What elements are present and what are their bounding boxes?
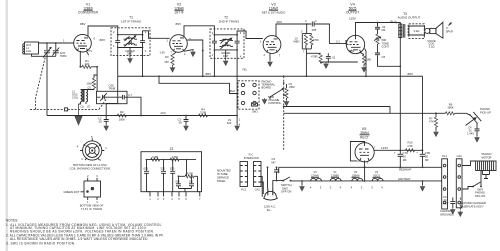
capacitor C2 .05 bbox=[98, 115, 109, 125]
svg-text:2.7: 2.7 bbox=[128, 93, 132, 97]
svg-text:CONVERTER: CONVERTER bbox=[78, 10, 99, 14]
heater V1 bbox=[330, 170, 342, 190]
svg-text:220: 220 bbox=[161, 166, 166, 170]
volume control R5 500K bbox=[268, 84, 288, 105]
T3 core bbox=[403, 24, 405, 38]
switch SW3 phono bbox=[462, 171, 485, 198]
svg-text:GRY/WHT: GRY/WHT bbox=[398, 177, 411, 181]
svg-text:.047: .047 bbox=[271, 160, 277, 164]
svg-text:.05: .05 bbox=[98, 120, 102, 124]
phono motor bbox=[476, 152, 496, 179]
chassis ground main (large) bbox=[78, 104, 80, 116]
heater V2 bbox=[351, 170, 363, 190]
svg-text:-7V: -7V bbox=[88, 49, 92, 53]
scan edge shading bbox=[6, 0, 9, 251]
svg-text:CA1: CA1 bbox=[457, 154, 463, 158]
svg-text:180: 180 bbox=[367, 58, 372, 62]
svg-text:.005: .005 bbox=[311, 28, 317, 32]
ground C6 bbox=[451, 208, 456, 214]
svg-text:BASEPLATE ASS'Y: BASEPLATE ASS'Y bbox=[460, 204, 484, 208]
svg-text:YEL: YEL bbox=[242, 68, 248, 72]
svg-text:220: 220 bbox=[227, 121, 232, 125]
switch SW2 bbox=[281, 177, 292, 194]
connector CA1 bbox=[456, 154, 462, 208]
svg-text:SW1: SW1 bbox=[252, 110, 258, 114]
svg-text:CONTROL: CONTROL bbox=[268, 101, 282, 105]
resistor R10 1.5K bbox=[406, 141, 415, 152]
ground C4 bbox=[475, 136, 480, 142]
phono line lower bbox=[284, 107, 436, 114]
svg-text:TRIM: TRIM bbox=[60, 54, 67, 58]
antenna L1 loopstick bbox=[23, 42, 39, 54]
tube V4 50C5 output bbox=[346, 3, 365, 58]
svg-text:PHONO: PHONO bbox=[482, 152, 492, 156]
T2 slug arrows bbox=[221, 38, 232, 49]
node T2 corners bbox=[214, 34, 216, 36]
tube V1 12BE6 converter bbox=[63, 3, 99, 58]
bottom view of T1 T2 IF trans bbox=[64, 174, 104, 211]
svg-text:DET & 1ST AUDIO: DET & 1ST AUDIO bbox=[262, 10, 286, 14]
svg-text:.005: .005 bbox=[143, 166, 149, 170]
trimmer C1B ANT TRIM bbox=[52, 43, 67, 58]
T1 slug arrows bbox=[125, 36, 136, 47]
svg-text:50: 50 bbox=[425, 155, 428, 159]
resistor 100K osc grid bbox=[87, 75, 98, 90]
wire T3 primary bottom long B+ drop bbox=[399, 38, 401, 151]
node primary bottom bbox=[399, 65, 401, 67]
ground V2 bbox=[191, 51, 196, 57]
wire V1 cathode stub bbox=[87, 52, 89, 55]
wire V1 plate to T1 pin2 bbox=[88, 26, 118, 36]
svg-text:T1,T2 I.F. TRANS: T1,T2 I.F. TRANS bbox=[81, 207, 102, 211]
T2 internal top wire bbox=[214, 34, 237, 36]
bottom view of L2 osc coil bbox=[70, 135, 111, 171]
svg-text:1ST IF TRANS: 1ST IF TRANS bbox=[121, 20, 141, 24]
ground V4 cathode bbox=[362, 66, 367, 72]
resistor R4 3.3M bbox=[199, 108, 208, 118]
wire plug left prong to B- bus bbox=[267, 167, 269, 188]
T1 internal ground bbox=[129, 48, 131, 58]
SW1 dashed gang line bbox=[283, 76, 285, 150]
resistor 10MEG V3 load bbox=[294, 24, 312, 54]
tone control pot 50K bbox=[374, 34, 389, 53]
V3 cathode ground stub bbox=[269, 53, 271, 60]
node coupling junction bbox=[306, 23, 308, 25]
svg-text:OFF-ON: OFF-ON bbox=[281, 190, 291, 194]
capacitor .02 lower bbox=[326, 53, 336, 62]
T1 internal bottom wire bbox=[118, 47, 143, 49]
svg-text:88V: 88V bbox=[100, 38, 106, 42]
capacitor C9 .047 bbox=[271, 157, 280, 182]
node filter junctions bbox=[399, 149, 401, 151]
svg-text:60~: 60~ bbox=[267, 208, 272, 212]
wire lower bottom rail bbox=[321, 53, 358, 63]
record changer dashed bracket bbox=[459, 198, 461, 211]
svg-text:CONT: CONT bbox=[382, 45, 390, 49]
voice coil connection bbox=[413, 26, 425, 35]
svg-text:(2): (2) bbox=[88, 86, 91, 90]
node plate wire / tone branch bbox=[377, 22, 379, 24]
wire T1 pin4 to B+ bus bbox=[142, 48, 144, 77]
wire antenna bottom return bbox=[32, 54, 56, 56]
svg-text:PICK-UP: PICK-UP bbox=[480, 110, 491, 114]
T1 tuning cap right bbox=[140, 35, 145, 48]
couplate Z1 box bbox=[141, 147, 202, 192]
wire screen feed branch BLU bbox=[159, 76, 238, 93]
svg-text:86V: 86V bbox=[176, 22, 182, 26]
ground heater bus bbox=[301, 181, 303, 185]
capacitor C3 .05 bbox=[178, 115, 189, 125]
svg-text:BOARD: BOARD bbox=[262, 86, 272, 90]
svg-text:1ST IF: 1ST IF bbox=[174, 10, 184, 14]
svg-text:MOUNTED: MOUNTED bbox=[217, 169, 231, 173]
svg-text:470K: 470K bbox=[313, 38, 319, 42]
T2 internal bottom wire bbox=[214, 49, 237, 51]
svg-text:3. SW1 IS SHOWN IN RADIO POSIT: 3. SW1 IS SHOWN IN RADIO POSITION. bbox=[6, 241, 76, 245]
heater bus bbox=[290, 180, 441, 182]
Z1 capacitor 150 bbox=[170, 159, 175, 192]
notes block bbox=[6, 219, 164, 246]
svg-text:COIL SHOWING CONNECTIONS: COIL SHOWING CONNECTIONS bbox=[70, 167, 111, 171]
svg-text:GREEN DOT: GREEN DOT bbox=[64, 190, 80, 194]
svg-text:BLU: BLU bbox=[391, 20, 396, 24]
V2 grid2 ground stub bbox=[184, 50, 193, 52]
filter capacitor C7B 50MF bbox=[416, 150, 430, 168]
wire plug right prong to switch bbox=[273, 181, 283, 189]
phono pickup bbox=[455, 107, 492, 126]
svg-text:150: 150 bbox=[164, 60, 169, 64]
svg-text:88V: 88V bbox=[80, 22, 86, 26]
node: C1B top junction bbox=[55, 42, 57, 44]
svg-text:22K: 22K bbox=[85, 62, 90, 66]
svg-text:AUDIO OUTPUT: AUDIO OUTPUT bbox=[398, 16, 421, 20]
connector CA2 bbox=[254, 162, 262, 192]
wire V2 screen to B+ bus bbox=[187, 40, 203, 76]
svg-text:V3: V3 bbox=[313, 170, 317, 174]
svg-text:3.3M: 3.3M bbox=[200, 111, 207, 115]
svg-text:MF: MF bbox=[425, 158, 429, 162]
svg-text:COIL: COIL bbox=[72, 96, 79, 100]
wire V4 screen to B+ bus bbox=[365, 49, 367, 77]
svg-text:Z1: Z1 bbox=[170, 147, 174, 151]
svg-text:.05: .05 bbox=[178, 121, 182, 125]
svg-text:88V: 88V bbox=[408, 72, 414, 76]
svg-text:(7): (7) bbox=[87, 104, 90, 108]
tuning capacitor C1A bbox=[43, 43, 51, 116]
svg-text:MEG: MEG bbox=[294, 40, 300, 44]
V4 cathode resistor 180 bbox=[360, 52, 372, 66]
oscillator trimmer box bbox=[97, 91, 128, 103]
ground volume right bbox=[284, 100, 289, 106]
svg-text:CA2: CA2 bbox=[255, 188, 261, 192]
wire V4 plate to T3 primary bbox=[356, 23, 401, 36]
T1 coils bbox=[124, 38, 138, 45]
svg-text:RECT: RECT bbox=[360, 136, 369, 140]
svg-text:121V: 121V bbox=[381, 146, 389, 150]
svg-text:C7A: C7A bbox=[403, 151, 408, 155]
svg-text:IN TUBE: IN TUBE bbox=[217, 172, 228, 176]
svg-text:88V: 88V bbox=[206, 72, 212, 76]
ground R7 bbox=[434, 131, 439, 137]
svg-text:.02: .02 bbox=[332, 56, 336, 60]
svg-text:1.4KV: 1.4KV bbox=[467, 132, 475, 136]
svg-text:3.2Ω: 3.2Ω bbox=[414, 29, 420, 33]
svg-text:R2: R2 bbox=[120, 110, 124, 114]
svg-text:V1: V1 bbox=[333, 170, 337, 174]
svg-text:(1): (1) bbox=[81, 104, 84, 108]
tube V3 12AV6 det/1st audio bbox=[260, 3, 286, 58]
svg-text:BOTTOM VIEW OF L2 OSC: BOTTOM VIEW OF L2 OSC bbox=[73, 163, 107, 167]
Z1 capacitor 100 bbox=[189, 176, 195, 188]
ground V3 cathode bbox=[268, 61, 273, 67]
node: C1A bottom junction bbox=[46, 55, 48, 57]
svg-text:390K: 390K bbox=[447, 106, 453, 110]
tube V5 35W4 rectifier bbox=[355, 127, 376, 165]
svg-text:.05M: .05M bbox=[289, 85, 296, 89]
svg-text:MF: MF bbox=[382, 28, 386, 32]
svg-text:OFF-ON: OFF-ON bbox=[475, 194, 485, 198]
svg-text:R3: R3 bbox=[165, 55, 169, 59]
wire bus drop to filter C7B bbox=[422, 76, 424, 150]
wire T2 pin3 to V3 grid bbox=[237, 31, 263, 39]
ground audio section bbox=[324, 62, 329, 68]
mechanical gang dashed link bbox=[30, 56, 107, 111]
ground C3 bbox=[184, 125, 189, 131]
node bus junction mid bbox=[306, 75, 308, 77]
T2 internal ground bbox=[225, 50, 227, 60]
T2 coils bbox=[220, 39, 234, 46]
ground YEL lead bbox=[235, 125, 240, 131]
svg-text:3.2Ω: 3.2Ω bbox=[429, 44, 435, 48]
svg-text:INTERLOCK: INTERLOCK bbox=[244, 156, 260, 160]
T3 secondary dashed box bbox=[409, 24, 425, 39]
svg-text:C7B: C7B bbox=[425, 151, 430, 155]
coupling capacitor .005 bbox=[305, 19, 346, 44]
svg-text:470K: 470K bbox=[187, 172, 193, 176]
T3 primary winding bbox=[399, 24, 402, 38]
Z1 resistor 6.8M bbox=[151, 155, 160, 161]
svg-text:1.4KV: 1.4KV bbox=[441, 201, 449, 205]
capacitor C8 bbox=[375, 53, 400, 66]
Z1 resistor 470K upper bbox=[170, 155, 179, 161]
Z1 capacitor 200 bbox=[175, 176, 181, 188]
resistor R7 47K bbox=[429, 113, 438, 130]
svg-text:MOTOR: MOTOR bbox=[482, 155, 492, 159]
svg-text:BLU: BLU bbox=[230, 89, 235, 93]
node T1 corners bbox=[117, 34, 119, 36]
wire T1 pin3 to V2 grid bbox=[143, 31, 170, 39]
svg-text:100: 100 bbox=[189, 179, 194, 183]
resistor R6 390K bbox=[436, 103, 455, 115]
svg-text:470R: 470R bbox=[311, 55, 317, 59]
B+ 88V bus bbox=[118, 75, 423, 77]
svg-text:MF: MF bbox=[403, 158, 407, 162]
svg-text:100K: 100K bbox=[87, 82, 93, 86]
svg-text:100K: 100K bbox=[119, 118, 125, 122]
svg-text:SPKR: SPKR bbox=[446, 30, 453, 34]
svg-text:110V: 110V bbox=[349, 17, 357, 21]
svg-text:47K: 47K bbox=[429, 120, 434, 124]
svg-text:V2: V2 bbox=[354, 170, 358, 174]
svg-text:V4: V4 bbox=[375, 170, 379, 174]
svg-text:PL1: PL1 bbox=[442, 154, 447, 158]
wire load bottom to B+ bus bbox=[305, 49, 307, 76]
V2 cathode resistor R3 150 bbox=[160, 51, 177, 67]
padder capacitor 2.7 bbox=[108, 93, 142, 116]
heater V3 bbox=[310, 170, 322, 190]
ground stub below GRY/WHT bbox=[422, 181, 424, 185]
ground volume left bbox=[262, 98, 267, 104]
IF transformer T1 dashed box bbox=[111, 16, 150, 56]
B minus bus RED/WHT bbox=[279, 166, 442, 168]
AC line plug bbox=[264, 189, 278, 212]
T2 tuning cap left bbox=[212, 35, 217, 50]
svg-text:6.4V: 6.4V bbox=[349, 49, 355, 53]
wire R1 to osc box bbox=[96, 67, 98, 92]
wire T2 pin4 YEL lead bbox=[236, 50, 238, 125]
wire V5 pin7 output bbox=[374, 149, 422, 151]
Z1 capacitor 220 bbox=[161, 159, 167, 192]
wire T1 pin1 to AVC bus bbox=[106, 48, 118, 116]
oscillator coil L2 bbox=[72, 86, 94, 109]
heater V4 bbox=[371, 170, 383, 190]
T1 internal top wire bbox=[118, 34, 143, 36]
capacitor C4 bbox=[467, 123, 480, 137]
resistor R2 100K bbox=[117, 110, 126, 121]
svg-text:4": 4" bbox=[446, 26, 448, 30]
svg-text:2-1: 2-1 bbox=[336, 40, 340, 44]
resistor 470K diode load bbox=[306, 34, 319, 49]
svg-text:1.5K: 1.5K bbox=[407, 144, 413, 148]
wire V2 plate to T2 pin2 bbox=[184, 26, 214, 37]
svg-text:SERVICE: SERVICE bbox=[217, 176, 229, 180]
ground C2 bbox=[104, 125, 109, 131]
osc trimmer cap bbox=[97, 93, 108, 101]
AVC bus bbox=[47, 115, 237, 117]
Z1 pins bbox=[149, 192, 201, 201]
svg-text:46V: 46V bbox=[277, 20, 283, 24]
mounted in tube service panel label bbox=[217, 169, 231, 184]
wire CA1 to motor bbox=[462, 161, 476, 166]
svg-text:AVC: AVC bbox=[161, 111, 166, 115]
svg-text:6.8M: 6.8M bbox=[152, 155, 159, 159]
ground R3 bbox=[170, 66, 175, 72]
wire V1 osc grid down bbox=[79, 51, 81, 67]
T3 secondary winding bbox=[408, 26, 410, 35]
resistor R1 22K bbox=[79, 59, 98, 69]
wire V3 plate run bbox=[276, 24, 311, 37]
T1 tuning cap left bbox=[115, 35, 120, 48]
wire V5 heater to buses bbox=[364, 161, 366, 182]
node: C1A top junction bbox=[46, 42, 48, 44]
svg-text:470K: 470K bbox=[172, 155, 178, 159]
V5 plate loop bbox=[350, 142, 364, 161]
Z1 resistor 470K lower bbox=[178, 159, 198, 178]
IF transformer T2 dashed box bbox=[210, 16, 244, 59]
svg-text:PL2: PL2 bbox=[241, 188, 246, 192]
svg-text:CHASSIS: CHASSIS bbox=[440, 209, 452, 213]
Z1 internal bottom wire bbox=[179, 176, 200, 191]
T2 tuning cap right bbox=[235, 35, 240, 50]
connector PL1 bbox=[442, 154, 448, 209]
phono terminal board label bbox=[262, 80, 276, 90]
svg-text:1.5V: 1.5V bbox=[160, 51, 166, 55]
tone capacitor .02MF bbox=[375, 23, 386, 35]
resistor 470R lower bbox=[306, 53, 322, 63]
output transformer T3 bbox=[391, 12, 421, 38]
svg-text:30: 30 bbox=[403, 155, 406, 159]
svg-text:C8: C8 bbox=[382, 55, 386, 59]
Z1 capacitor .005 bbox=[143, 159, 150, 192]
phono line upper bbox=[284, 106, 390, 108]
wire CA2 to plug bbox=[261, 177, 263, 197]
phono terminal board dashed box bbox=[238, 81, 259, 109]
Z1 internal rail bbox=[147, 159, 197, 161]
Z1 pin1 connection label bbox=[227, 117, 241, 125]
svg-text:PANEL: PANEL bbox=[217, 179, 226, 183]
svg-text:1/2A: 1/2A bbox=[26, 50, 31, 53]
connector PL2 bbox=[240, 162, 248, 192]
speaker bbox=[425, 22, 453, 48]
wire T2 pin1 to B+ bus bbox=[213, 50, 215, 76]
svg-text:2ND IF TRANS: 2ND IF TRANS bbox=[219, 20, 239, 24]
svg-text:200: 200 bbox=[175, 179, 180, 183]
svg-text:GROUNDS: GROUNDS bbox=[440, 212, 454, 216]
wire antenna top bus bbox=[39, 42, 74, 44]
svg-text:TRIM: TRIM bbox=[109, 86, 116, 90]
capacitor C6 bbox=[441, 195, 455, 208]
tube V2 12BA6 1st IF amp bbox=[167, 3, 192, 56]
svg-text:RED/WHT: RED/WHT bbox=[399, 168, 412, 172]
filter capacitor C7A 30MF bbox=[394, 150, 408, 168]
svg-text:OUTPUT: OUTPUT bbox=[346, 10, 359, 14]
V4 grid wire bbox=[346, 40, 349, 45]
svg-text:RECORD CHANGER: RECORD CHANGER bbox=[460, 201, 486, 205]
